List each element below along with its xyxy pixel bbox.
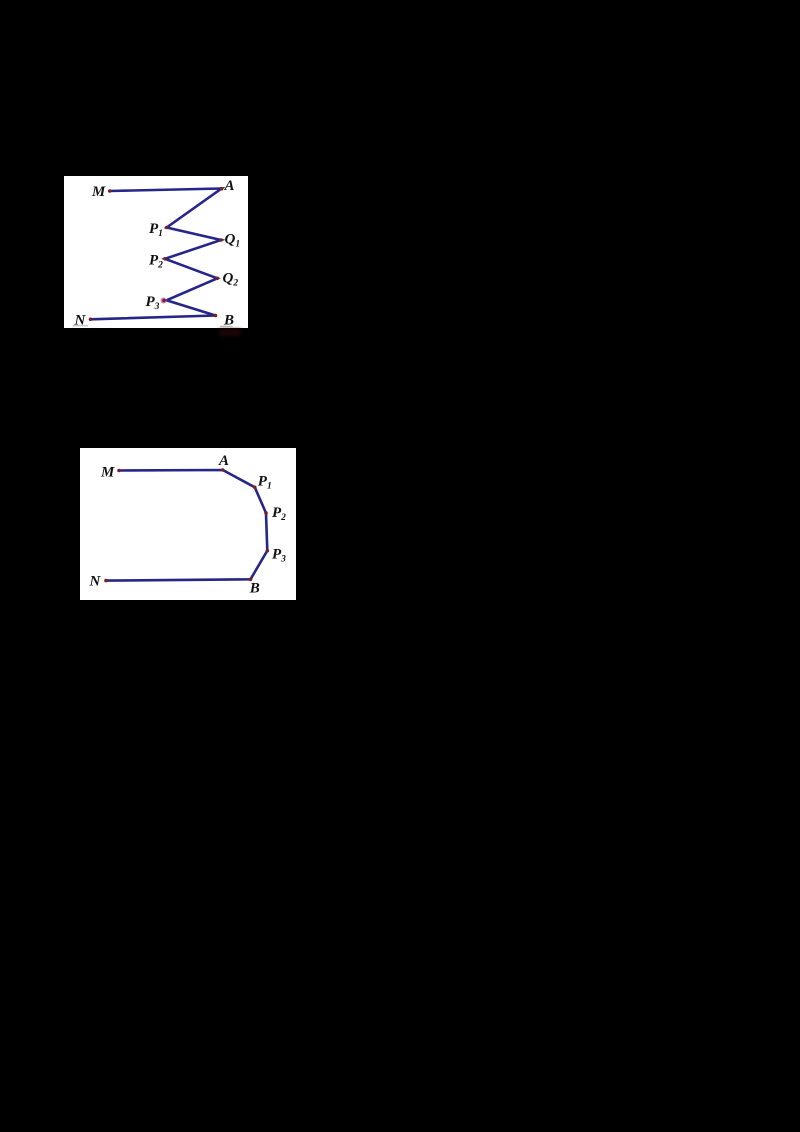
svg-text:P2: P2: [272, 505, 286, 523]
svg-text:B: B: [223, 313, 234, 329]
svg-text:M: M: [91, 184, 106, 200]
svg-text:P2: P2: [149, 253, 163, 271]
svg-text:M: M: [100, 465, 115, 481]
svg-text:N: N: [89, 574, 102, 590]
svg-text:P1: P1: [149, 221, 163, 239]
svg-text:Q2: Q2: [223, 271, 239, 289]
svg-text:B: B: [249, 581, 260, 597]
svg-text:Q1: Q1: [225, 232, 241, 250]
svg-text:P1: P1: [258, 474, 272, 492]
svg-text:P3: P3: [272, 547, 286, 565]
svg-text:A: A: [218, 453, 229, 469]
svg-text:A: A: [224, 178, 235, 194]
svg-text:P3: P3: [146, 294, 160, 312]
